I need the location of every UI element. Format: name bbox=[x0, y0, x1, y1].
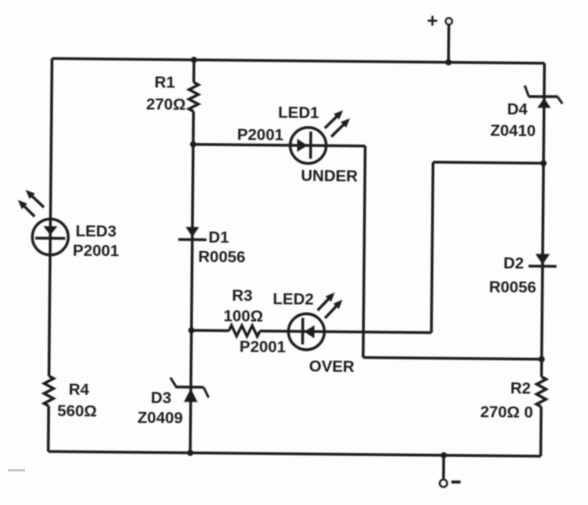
wire LED1 vertical drop bbox=[363, 146, 365, 357]
terminal - (open circle) bbox=[440, 480, 447, 487]
svg-text:LED1: LED1 bbox=[278, 105, 319, 122]
wire left rail upper bbox=[49, 59, 52, 376]
wire top rail bbox=[52, 59, 544, 64]
svg-text:UNDER: UNDER bbox=[301, 168, 358, 186]
wire R3 branch from middle rail bbox=[191, 329, 228, 332]
node R3 branch junction bbox=[188, 327, 194, 333]
scan smudge bottom left bbox=[8, 469, 25, 472]
wire right rail lower bbox=[539, 407, 542, 456]
svg-text:R0056: R0056 bbox=[198, 249, 245, 266]
svg-text:R0056: R0056 bbox=[489, 279, 536, 296]
node plus junction bbox=[445, 59, 451, 65]
resistor R3 bbox=[229, 325, 260, 336]
wire middle rail bbox=[190, 111, 193, 452]
wire right rail upper bbox=[541, 63, 544, 376]
svg-text:100Ω: 100Ω bbox=[223, 308, 263, 325]
LED LED1 bbox=[290, 110, 350, 164]
diode D2 bbox=[529, 254, 557, 267]
wire bottom rail bbox=[48, 451, 540, 456]
svg-text:R1: R1 bbox=[154, 74, 175, 91]
wire R3 to LED2 to corner bbox=[260, 331, 431, 333]
svg-text:R4: R4 bbox=[69, 382, 90, 399]
node bottom middle junction bbox=[187, 450, 193, 456]
svg-text:P2001: P2001 bbox=[237, 127, 284, 144]
zener diode D4 bbox=[525, 86, 563, 108]
zener diode D3 bbox=[170, 378, 209, 402]
svg-text:D3: D3 bbox=[151, 390, 172, 407]
LED LED2 bbox=[288, 292, 342, 350]
wire LED1 branch from middle rail bbox=[193, 144, 365, 146]
svg-text:P2001: P2001 bbox=[73, 243, 120, 260]
wire LED1 run to right rail bbox=[363, 358, 541, 360]
svg-text:+: + bbox=[427, 11, 438, 32]
svg-text:LED3: LED3 bbox=[76, 223, 117, 240]
svg-text:R3: R3 bbox=[232, 288, 253, 305]
node minus junction bbox=[441, 452, 447, 458]
node R1 top junction bbox=[191, 57, 197, 63]
svg-text:D2: D2 bbox=[503, 255, 524, 272]
svg-text:270Ω 0: 270Ω 0 bbox=[480, 404, 533, 422]
diode D1 bbox=[178, 227, 206, 240]
resistor R2 bbox=[536, 377, 546, 407]
node LED1 branch junction bbox=[190, 141, 196, 147]
svg-text:D1: D1 bbox=[208, 229, 229, 246]
svg-text:R2: R2 bbox=[510, 381, 531, 398]
svg-text:Z0410: Z0410 bbox=[490, 123, 536, 140]
svg-text:560Ω: 560Ω bbox=[57, 403, 97, 420]
LED LED3 bbox=[17, 190, 68, 255]
node upper right junction bbox=[540, 160, 546, 166]
svg-text:D4: D4 bbox=[507, 101, 528, 118]
wire positive terminal lead bbox=[447, 25, 450, 62]
svg-text:LED2: LED2 bbox=[273, 291, 314, 308]
svg-text:270Ω: 270Ω bbox=[146, 96, 186, 113]
terminal + (open circle) bbox=[446, 18, 452, 24]
svg-text:P2001: P2001 bbox=[239, 339, 286, 356]
resistor R1 bbox=[189, 82, 199, 111]
label - bbox=[451, 480, 460, 483]
node lower right junction bbox=[539, 356, 545, 362]
wire LED2 run to right rail bbox=[433, 162, 543, 163]
wire negative terminal lead bbox=[442, 455, 445, 478]
svg-text:OVER: OVER bbox=[309, 358, 355, 375]
svg-text:Z0409: Z0409 bbox=[137, 410, 183, 427]
wire LED2 vertical rise bbox=[431, 162, 433, 332]
resistor R4 bbox=[44, 376, 54, 406]
wire left rail lower bbox=[47, 406, 50, 451]
wire middle rail top stub bbox=[192, 60, 195, 82]
